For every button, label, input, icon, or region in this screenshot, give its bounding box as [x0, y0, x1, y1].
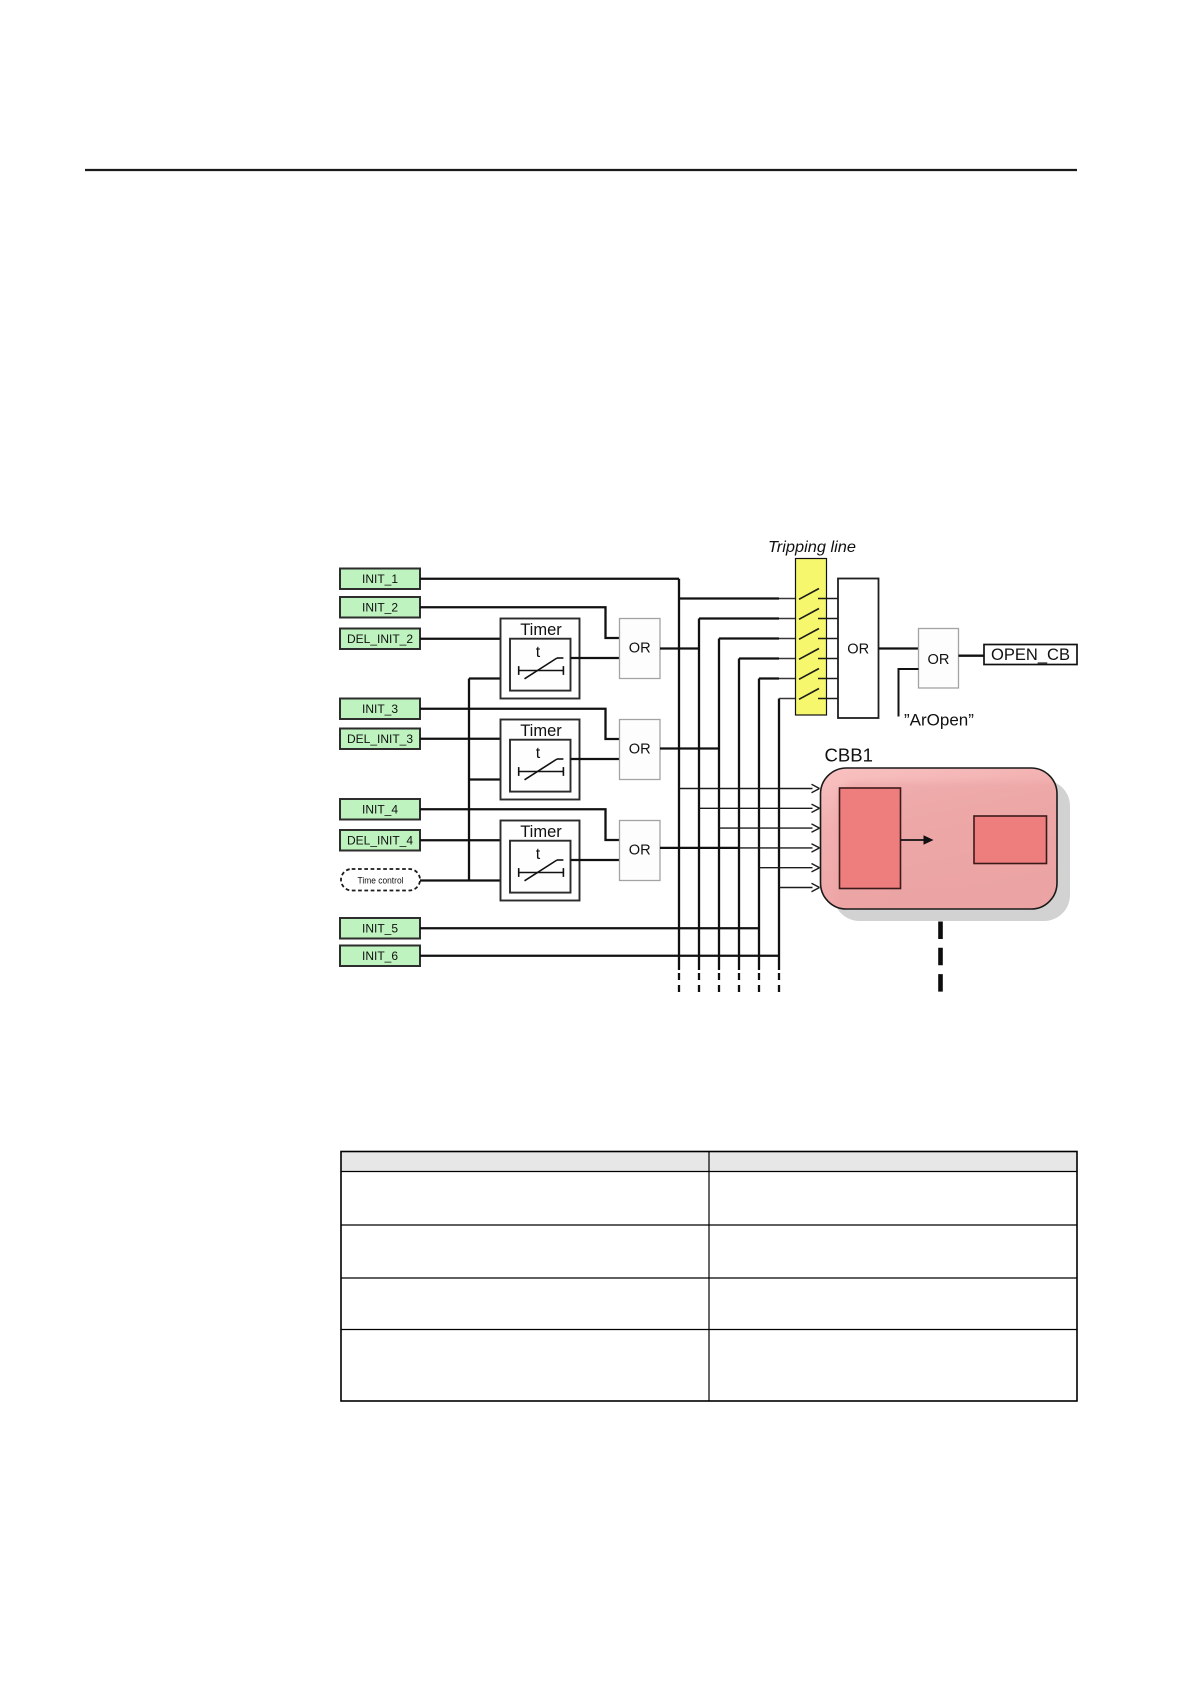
switch contact 6 in tripping line — [799, 689, 838, 700]
CBB1 label — [825, 746, 874, 766]
wire Time control branch to Timer2 — [469, 778, 501, 780]
input box INIT_2 — [340, 597, 420, 618]
switch contact 5 in tripping line — [799, 669, 838, 680]
wire Timer2 output to OR2 — [571, 758, 620, 760]
ArOpen label — [904, 711, 974, 730]
svg-text:Time control: Time control — [358, 875, 404, 885]
svg-text:Timer: Timer — [520, 621, 562, 639]
switch contact 2 in tripping line — [799, 609, 838, 620]
wire DEL_INIT_4 to Timer3 — [420, 839, 501, 841]
svg-text:DEL_INIT_2: DEL_INIT_2 — [347, 632, 413, 646]
svg-text:OR: OR — [629, 843, 651, 859]
timer block Timer2 — [501, 720, 580, 800]
svg-text:INIT_3: INIT_3 — [362, 702, 398, 716]
output box OPEN_CB — [984, 645, 1077, 665]
or-gate main OR (tripping) — [838, 579, 879, 719]
switch contact 3 in tripping line — [799, 629, 838, 640]
wire tripping row 6 feed — [779, 698, 799, 700]
svg-text:OR: OR — [629, 742, 651, 758]
bus line 1 (vertical) — [678, 579, 680, 994]
tripping line label — [768, 539, 856, 556]
input box INIT_6 — [340, 946, 420, 967]
svg-text:INIT_5: INIT_5 — [362, 922, 398, 936]
svg-text:DEL_INIT_4: DEL_INIT_4 — [347, 834, 413, 848]
wire CBB1 input arrow 5 — [759, 864, 820, 872]
bus line 2 (vertical) — [698, 619, 700, 995]
header rule — [85, 169, 1077, 171]
svg-text:t: t — [536, 644, 541, 661]
input box INIT_3 — [340, 699, 420, 720]
wire Time control vertical bus — [468, 679, 470, 881]
svg-text:INIT_2: INIT_2 — [362, 601, 398, 615]
or-gate OR1 — [620, 619, 661, 679]
Time control input (dashed oval) — [341, 869, 420, 891]
bus line 3 (vertical) — [718, 639, 720, 995]
or-gate OR3 — [620, 821, 661, 881]
wire CBB1 input arrow 1 — [679, 784, 820, 792]
wire INIT_2 elbow to OR1 input — [420, 607, 620, 638]
wire INIT_3 elbow to OR2 input — [420, 709, 620, 739]
CBB1 inner block left — [840, 788, 901, 889]
wire INIT_6 to bus 6 — [420, 955, 779, 957]
svg-text:OR: OR — [928, 652, 950, 668]
wire CBB1 input arrow 3 — [719, 824, 820, 832]
wire final OR to OPEN_CB — [959, 655, 985, 657]
bus line 5 (vertical) — [758, 679, 760, 995]
svg-text:”ArOpen”: ”ArOpen” — [904, 711, 974, 730]
bus line 4 (vertical) — [738, 659, 740, 995]
svg-text:INIT_1: INIT_1 — [362, 572, 398, 586]
wire OR1 output to bus 2 — [660, 647, 699, 649]
wire tripping row 3 feed — [719, 637, 799, 639]
input box DEL_INIT_2 — [340, 629, 420, 650]
wire OR3 output to bus 4 — [660, 847, 739, 849]
wire ArOpen to final OR — [899, 669, 919, 717]
svg-text:Timer: Timer — [520, 722, 562, 740]
svg-text:OR: OR — [847, 641, 869, 657]
wire Timer1 output to OR1 — [571, 657, 620, 659]
switch contact 1 in tripping line — [799, 589, 838, 600]
svg-text:OR: OR — [629, 641, 651, 657]
svg-text:DEL_INIT_3: DEL_INIT_3 — [347, 732, 413, 746]
svg-text:t: t — [536, 846, 541, 863]
wire tripping row 5 feed — [759, 677, 799, 679]
svg-text:t: t — [536, 745, 541, 762]
svg-text:Tripping line: Tripping line — [768, 539, 856, 556]
input box INIT_1 — [340, 569, 420, 590]
table frame — [341, 1152, 1077, 1402]
svg-text:OPEN_CB: OPEN_CB — [991, 645, 1070, 664]
tripping line block (yellow) — [796, 559, 827, 716]
svg-text:CBB1: CBB1 — [825, 746, 874, 766]
or-gate final OR — [919, 629, 959, 689]
wire DEL_INIT_3 to Timer2 — [420, 738, 501, 740]
wire INIT_4 elbow to OR3 input — [420, 809, 620, 840]
CBB1 inner block right — [974, 816, 1047, 864]
svg-text:INIT_4: INIT_4 — [362, 803, 398, 817]
svg-text:Timer: Timer — [520, 823, 562, 841]
input box DEL_INIT_4 — [340, 830, 420, 851]
wire OR2 output to bus 3 — [660, 747, 719, 749]
timer block Timer1 — [501, 619, 580, 699]
bus line 6 (vertical) — [778, 699, 780, 995]
wire tripping row 1 feed — [679, 597, 799, 599]
switch contact 4 in tripping line — [799, 649, 838, 660]
timer block Timer3 — [501, 821, 580, 901]
or-gate OR2 — [620, 720, 661, 780]
input box INIT_4 — [340, 799, 420, 820]
wire INIT_1 to bus 1 — [420, 578, 679, 580]
CBB1 block shadow — [834, 780, 1071, 921]
wire Timer3 output to OR3 — [571, 859, 620, 861]
wire CBB1 input arrow 6 — [779, 883, 820, 891]
wire Time control to Timer3 input — [420, 879, 501, 881]
wire CBB1 input arrow 4 — [739, 844, 820, 852]
wire DEL_INIT_2 to Timer1 — [420, 638, 501, 640]
input box INIT_5 — [340, 918, 420, 939]
CBB1 internal arrow — [901, 835, 934, 844]
dashed continuation line below CBB1 — [938, 922, 943, 993]
svg-text:INIT_6: INIT_6 — [362, 949, 398, 963]
wire tripping row 2 feed — [699, 617, 799, 619]
input box DEL_INIT_3 — [340, 729, 420, 750]
wire Time control branch to Timer1 — [469, 677, 501, 679]
wire main OR to final OR — [879, 647, 919, 649]
wire CBB1 input arrow 2 — [699, 804, 820, 812]
wire tripping row 4 feed — [739, 657, 799, 659]
wire INIT_5 to bus 5 — [420, 927, 759, 929]
